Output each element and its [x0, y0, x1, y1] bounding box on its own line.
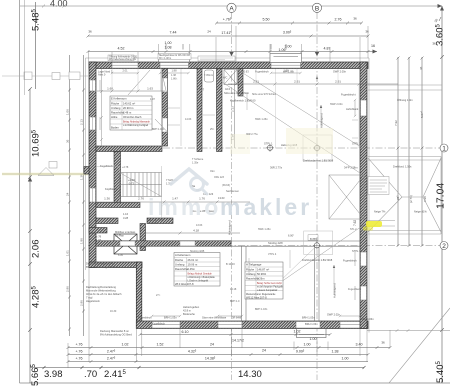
bottom big dimension row — [30, 366, 366, 369]
svg-text:Fläche: Fläche — [175, 258, 184, 262]
X-square top right — [329, 175, 364, 219]
bottom rooms divider wall B — [315, 246, 320, 321]
stair extension lines — [96, 166, 162, 218]
room info table 2 (bottom-left room) — [174, 253, 220, 287]
svg-text:Streling 42/8: Streling 42/8 — [268, 241, 283, 245]
svg-text:26.01 m²: 26.01 m² — [188, 258, 199, 262]
bath fixtures — [205, 70, 238, 85]
svg-text:Möbllee unterlass: Möbllee unterlass — [115, 230, 136, 234]
svg-text:25 t: 25 t — [210, 128, 214, 131]
long roof valley diagonal 1 — [238, 70, 364, 149]
svg-text:STPL 2: STPL 2 — [352, 142, 361, 146]
svg-text:1.16: 1.16 — [123, 212, 129, 216]
svg-text:3.28: 3.28 — [123, 216, 129, 220]
svg-text:WS Kellerbeleuchtung OG: WS Kellerbeleuchtung OG — [109, 58, 136, 61]
svg-text:36: 36 — [432, 42, 436, 46]
rotated chain mid x234 — [234, 70, 236, 148]
svg-text:10-Plan: 10-Plan — [115, 234, 124, 238]
svg-text:1.63: 1.63 — [147, 87, 153, 91]
svg-text:Hagelstreck: Hagelstreck — [86, 299, 100, 303]
svg-text:Umfang: Umfang — [246, 272, 256, 276]
svg-text:Fenstern: Fenstern — [147, 221, 158, 225]
svg-text:1.08: 1.08 — [165, 46, 172, 50]
svg-text:makler: makler — [220, 194, 312, 220]
svg-text:36: 36 — [353, 17, 357, 21]
svg-text:34°P 2.58m: 34°P 2.58m — [344, 166, 358, 170]
svg-text:Fugenblech t: Fugenblech t — [341, 93, 356, 97]
svg-text:1.01: 1.01 — [66, 250, 70, 256]
svg-text:+2.29: +2.29 — [128, 178, 135, 182]
svg-text:24: 24 — [262, 349, 266, 353]
svg-text:Umfang: Umfang — [175, 263, 185, 267]
svg-text:Aufsteigend: Aufsteigend — [320, 113, 324, 128]
grid line 1 horizontal — [88, 147, 440, 149]
svg-text:2.48 m: 2.48 m — [123, 111, 132, 115]
wall under stair landing — [96, 203, 140, 208]
svg-text:A Kellerraum: A Kellerraum — [175, 253, 191, 257]
faint verticals top-right room — [256, 69, 359, 148]
svg-text:Okn: Okn — [210, 170, 215, 173]
rotated label Aufsteigend B top — [320, 105, 324, 128]
svg-text:Drehfund. 1.50s: Drehfund. 1.50s — [393, 165, 412, 169]
svg-text:OFH-Flur-Dach: OFH-Flur-Dach — [123, 115, 142, 119]
svg-text:7 mgl: 7 mgl — [86, 296, 93, 300]
svg-text:8% Aufstandelung OG Berd: 8% Aufstandelung OG Berd — [86, 265, 118, 269]
door swing room1 — [128, 70, 150, 95]
stair — [120, 173, 162, 197]
svg-text:2.01: 2.01 — [122, 69, 128, 73]
svg-text:3.98: 3.98 — [44, 369, 63, 380]
svg-text:6.95: 6.95 — [118, 254, 123, 257]
section arrow A — [229, 52, 233, 56]
svg-text:Sitze eine 970 Schien: Sitze eine 970 Schien — [224, 91, 250, 95]
svg-text:2.96: 2.96 — [66, 286, 70, 292]
svg-text:28.0 Abw.207-8: 28.0 Abw.207-8 — [175, 282, 194, 286]
svg-text:BRH 1.0: BRH 1.0 — [230, 300, 240, 303]
svg-text:Neige d1%: Neige d1% — [414, 210, 427, 214]
top dimension row3/4 — [87, 44, 378, 54]
grid bubble A — [227, 3, 236, 12]
column B2 with foundation square — [304, 231, 333, 254]
svg-text:42.6: 42.6 — [225, 87, 231, 91]
interior wall duct/bath left — [217, 69, 223, 152]
right wall annotation box — [368, 177, 389, 195]
svg-text:STL 2: STL 2 — [350, 228, 357, 231]
dimension chain right — [440, 6, 444, 383]
svg-text:WS12 Abw.207-8: WS12 Abw.207-8 — [246, 295, 267, 299]
svg-text:Belag: Sohle Gem.Aufpl.: Belag: Sohle Gem.Aufpl. — [257, 282, 283, 285]
svg-text:-0.73: -0.73 — [128, 182, 134, 186]
svg-text:+.78: +.78 — [96, 235, 102, 239]
svg-text:Umfang: Umfang — [111, 106, 121, 110]
svg-text:4.00: 4.00 — [50, 0, 68, 9]
svg-text:13.63: 13.63 — [196, 224, 203, 227]
watermark logo — [171, 169, 207, 194]
section marker line mid left (pale yellow) — [2, 162, 88, 176]
svg-text:36R 2.77a: 36R 2.77a — [246, 133, 258, 136]
svg-text:24: 24 — [210, 343, 214, 347]
column STPL1 — [266, 144, 274, 152]
diagonal bottom right corner — [389, 308, 450, 383]
svg-text:STPL 1: STPL 1 — [264, 142, 273, 146]
svg-text:Höhe: Höhe — [111, 115, 118, 119]
long roof valley diagonal 2 — [222, 82, 360, 173]
dormer 1 top — [159, 55, 190, 63]
svg-text:3.00: 3.00 — [285, 45, 292, 49]
svg-text:SWP 2.00n: SWP 2.00n — [333, 70, 347, 74]
svg-text:14.63: 14.63 — [185, 118, 192, 121]
svg-text:u.nd Dämmung Fertigteil: u.nd Dämmung Fertigteil — [123, 124, 149, 127]
svg-text:24: 24 — [207, 30, 211, 34]
roof valley diagonal bottom middle — [262, 222, 368, 295]
svg-text:146.87 m²: 146.87 m² — [257, 268, 269, 272]
svg-text:Streling 42/B: Streling 42/B — [190, 250, 205, 253]
room info table 3 (bottom-middle room) — [245, 262, 284, 299]
svg-text:5.50: 5.50 — [263, 18, 270, 22]
svg-text:Fugenblech: Fugenblech — [255, 70, 269, 74]
grid line B vertical — [316, 12, 318, 380]
dimension chain left — [28, 2, 36, 383]
wall bottom — [136, 321, 368, 329]
svg-text:Deckung Mansardet 8 on: Deckung Mansardet 8 on — [100, 329, 130, 333]
window mini-dims bottom wall — [151, 315, 361, 317]
svg-text:WC: WC — [223, 76, 227, 80]
dormer 2 top — [270, 54, 302, 63]
svg-text:2.26m: 2.26m — [257, 277, 265, 281]
svg-text:2.96: 2.96 — [80, 300, 84, 306]
section marker line upper left — [2, 72, 88, 80]
stair left wall — [114, 152, 121, 203]
svg-text:Kugelblech: Kugelblech — [100, 164, 113, 168]
svg-text:1.06: 1.06 — [66, 109, 70, 115]
tiny labels top rooms — [98, 70, 359, 112]
svg-text:1.36: 1.36 — [104, 197, 110, 201]
svg-text:Drehfundament 1.80/.90/8: Drehfundament 1.80/.90/8 — [303, 159, 334, 163]
entrance porch below bottom wall — [297, 329, 327, 338]
svg-text:BRH 1.03n: BRH 1.03n — [302, 316, 315, 320]
wall top — [89, 62, 368, 69]
svg-text:B: B — [315, 5, 319, 12]
svg-text:1.86 t: 1.86 t — [171, 78, 178, 81]
svg-text:1.00: 1.00 — [165, 41, 172, 45]
top dimension row2 — [87, 35, 370, 38]
top dimension row1 — [215, 17, 441, 25]
svg-text:Abst 0: Abst 0 — [98, 73, 106, 77]
svg-text:42.8 m: 42.8 m — [183, 309, 191, 313]
svg-text:immo: immo — [148, 194, 221, 220]
interior wall room1 bottom — [96, 146, 162, 152]
svg-text:Deckung Steinpich 11 on: Deckung Steinpich 11 on — [86, 262, 115, 266]
grid bubble 2 — [440, 242, 448, 250]
svg-text:10.695: 10.695 — [31, 129, 42, 157]
svg-text:▭ 10.63: ▭ 10.63 — [239, 70, 249, 74]
right chain labels — [435, 24, 447, 384]
note below bottom wall left — [100, 329, 132, 337]
svg-text:SWP 2.00n: SWP 2.00n — [330, 103, 343, 106]
svg-text:Dachlattung/Konterlattung: Dachlattung/Konterlattung — [86, 285, 117, 289]
svg-text:4.52: 4.52 — [118, 47, 125, 51]
svg-text:27 t: 27 t — [156, 294, 160, 297]
svg-text:1.47: 1.47 — [199, 88, 205, 92]
svg-text:4.87: 4.87 — [324, 47, 331, 51]
svg-text:.70: .70 — [84, 369, 97, 380]
svg-text:+2.78: +2.78 — [122, 166, 129, 169]
yellow highlighter mark — [366, 221, 382, 227]
grid bubble B — [312, 3, 321, 12]
svg-text:Aufmblank: Aufmblank — [346, 107, 359, 111]
svg-text:19.06 m: 19.06 m — [188, 263, 198, 267]
svg-text:Fläche: Fläche — [246, 268, 255, 272]
svg-text:1.68: 1.68 — [107, 87, 113, 91]
interior wall corridor left — [162, 69, 168, 147]
svg-text:14.30: 14.30 — [238, 369, 262, 380]
svg-text:Sitze eine 970 Schien: Sitze eine 970 Schien — [252, 93, 277, 96]
svg-text:Drehfundament 1.80/.90/8: Drehfundament 1.80/.90/8 — [302, 258, 333, 262]
corridor glass partition — [180, 69, 182, 146]
svg-text:Kopfbereich 1.80/8.60: Kopfbereich 1.80/8.60 — [230, 99, 256, 103]
svg-text:H Tiefgarage: H Tiefgarage — [246, 263, 262, 267]
svg-text:m.def.Ausprüre Packgsfb: m.def.Ausprüre Packgsfb — [257, 286, 284, 289]
left wall exterior stub — [84, 167, 89, 175]
svg-text:ORL 123: ORL 123 — [214, 176, 225, 179]
grid bubble 1 — [440, 144, 448, 152]
svg-text:1.00: 1.00 — [342, 357, 349, 361]
svg-text:38 × 1.48 m: 38 × 1.48 m — [159, 57, 171, 60]
svg-text:2.13: 2.13 — [80, 119, 84, 125]
left inner dimension chains — [68, 55, 85, 336]
svg-text:2.06: 2.06 — [31, 240, 42, 259]
svg-text:1.97: 1.97 — [150, 98, 155, 101]
svg-text:14.18: 14.18 — [230, 288, 237, 291]
svg-text:36: 36 — [66, 139, 70, 143]
svg-text:1.35e: 1.35e — [192, 162, 199, 165]
svg-text:Neige 7%: Neige 7% — [374, 210, 386, 214]
bottom dimension rows — [67, 333, 392, 363]
svg-text:E Kellerraum: E Kellerraum — [111, 97, 127, 101]
note block outside bottom-left — [86, 285, 122, 303]
svg-text:2.13: 2.13 — [231, 106, 235, 112]
note block left of notch — [86, 262, 118, 270]
bottom wall line extension right — [367, 329, 450, 332]
tiny labels bottom rooms — [100, 164, 374, 326]
page border left — [19, 0, 21, 383]
svg-text:(36.63): (36.63) — [222, 184, 230, 187]
interior dimension line y202 — [96, 201, 250, 204]
svg-text:Fugenblech: Fugenblech — [348, 288, 362, 291]
building outer contour (eaves line) — [86, 58, 370, 333]
svg-text:2.76: 2.76 — [335, 18, 342, 22]
interior chain x=101.5 left room — [100, 69, 103, 146]
svg-text:1.00: 1.00 — [304, 343, 311, 347]
svg-text:140.62 m²: 140.62 m² — [123, 102, 135, 106]
svg-text:7.92: 7.92 — [394, 120, 398, 126]
gable triangle marker — [38, 168, 54, 176]
wall left — [89, 62, 96, 268]
svg-text:36R 2.77a: 36R 2.77a — [270, 166, 283, 170]
up arrow near gridline B top-right room — [316, 76, 318, 82]
rotated label slope arrow bottom — [333, 265, 337, 298]
svg-text:36: 36 — [419, 66, 423, 70]
svg-text:Belag: Abdeck Gemäde: Belag: Abdeck Gemäde — [188, 273, 213, 276]
svg-text:SWK 1.26n: SWK 1.26n — [255, 118, 268, 121]
svg-text:17.04: 17.04 — [435, 183, 447, 209]
pale yellow tint top-right room — [286, 128, 333, 154]
svg-text:BRH 1.03n: BRH 1.03n — [255, 308, 268, 311]
svg-text:6.10: 6.10 — [182, 330, 189, 334]
bottom rooms divider wall 1 — [242, 246, 247, 321]
svg-text:1.88: 1.88 — [283, 69, 289, 73]
svg-text:+.76: +.76 — [75, 357, 82, 361]
right annex hip roof plan — [368, 85, 442, 234]
svg-text:Mummole Wetterstreifung: Mummole Wetterstreifung — [86, 289, 116, 293]
interior wall bath right — [238, 69, 243, 97]
label boxes above top wall — [108, 54, 235, 62]
svg-text:1.07: 1.07 — [96, 238, 102, 242]
svg-text:3.40: 3.40 — [356, 343, 363, 347]
svg-text:8% Aufstandelung OG Berd: 8% Aufstandelung OG Berd — [100, 333, 132, 337]
window mini-dims right wall — [354, 99, 356, 300]
svg-text:7.62: 7.62 — [353, 220, 357, 226]
svg-text:Öffnung 1.0m: Öffnung 1.0m — [397, 98, 413, 102]
interior dimension line y84 — [97, 83, 398, 93]
svg-text:Aufsteigend: Aufsteigend — [333, 283, 337, 298]
window mini-dims left wall — [99, 80, 101, 130]
svg-text:36: 36 — [88, 30, 92, 34]
svg-text:Bodenehe: Bodenehe — [183, 312, 195, 316]
svg-text:1.52: 1.52 — [157, 343, 164, 347]
svg-text:BRH 1.03n: BRH 1.03n — [361, 317, 374, 321]
svg-text:2: 2 — [442, 243, 446, 250]
svg-text:SWK 1.26n: SWK 1.26n — [258, 228, 271, 231]
svg-text:7.05mm: 7.05mm — [204, 74, 213, 77]
top dimension line row0 — [20, 4, 442, 8]
chimney block with X — [114, 234, 137, 254]
extension lines below bottom wall — [68, 268, 390, 369]
svg-text:STPL 3: STPL 3 — [352, 249, 361, 253]
svg-text:Niedrigschloss für WS OR OR: Niedrigschloss für WS OR OR — [159, 54, 190, 57]
svg-text:BRH 1.03n: BRH 1.03n — [152, 128, 165, 131]
left chain labels — [30, 0, 68, 386]
svg-text:36: 36 — [365, 30, 369, 34]
svg-text:(2.76): (2.76) — [409, 195, 413, 203]
svg-text:50.96%: 50.96% — [257, 272, 267, 276]
svg-text:6.00°: 6.00° — [288, 234, 294, 238]
svg-text:1.86: 1.86 — [80, 238, 84, 244]
svg-text:1: 1 — [442, 145, 446, 152]
svg-text:40 lat.fix 4a +8 cm den Altbac: 40 lat.fix 4a +8 cm den Altbach — [86, 292, 122, 296]
svg-text:7.44: 7.44 — [170, 31, 177, 35]
svg-text:16.30: 16.30 — [110, 310, 117, 313]
grid line 2 horizontal — [88, 245, 440, 247]
interior dimension line y233 — [145, 232, 240, 235]
extra interior clutter labels — [110, 74, 362, 313]
svg-text:B 10.03: B 10.03 — [226, 263, 235, 266]
gridline2 wall long — [96, 241, 360, 246]
svg-text:1.88: 1.88 — [171, 69, 177, 73]
svg-text:1.02: 1.02 — [294, 330, 301, 334]
svg-text:2.45m: 2.45m — [188, 267, 196, 271]
svg-text:+.76: +.76 — [75, 350, 82, 354]
right inner dimension chains — [397, 57, 424, 248]
svg-text:Hebezugeben: Hebezugeben — [183, 305, 200, 309]
svg-text:BRH 1.03n: BRH 1.03n — [305, 322, 318, 326]
room info table 1 (top-left room) — [110, 96, 152, 130]
svg-text:VTPL 4: VTPL 4 — [268, 253, 277, 256]
svg-text:1.02: 1.02 — [122, 343, 129, 347]
svg-text:1.38: 1.38 — [332, 350, 339, 354]
interior mid wall segments (stair area) — [96, 218, 118, 224]
wall bottom-left notch vertical — [136, 262, 142, 328]
svg-text:SWP 2.02n: SWP 2.02n — [327, 313, 341, 317]
note block at notch bottom — [115, 230, 136, 237]
interior wall corridor right — [197, 69, 202, 152]
wall right — [360, 62, 367, 329]
page border bottom — [20, 382, 450, 384]
svg-text:36: 36 — [381, 341, 385, 345]
small interior dim marks — [168, 92, 358, 275]
svg-text:20.90 lm: 20.90 lm — [123, 106, 134, 110]
svg-text:Belag: Abdeckg Mansarde: Belag: Abdeckg Mansarde — [123, 121, 151, 124]
svg-text:4.18: 4.18 — [193, 229, 199, 233]
svg-text:Boden: Boden — [111, 126, 119, 130]
svg-text:16: 16 — [371, 44, 375, 48]
column B1 with foundation square — [303, 135, 332, 161]
svg-text:Fugenblech: Fugenblech — [138, 316, 152, 320]
svg-text:24: 24 — [66, 192, 70, 196]
svg-text:+.76: +.76 — [75, 343, 82, 347]
svg-text:2.76: 2.76 — [138, 197, 144, 201]
left second border line top — [24, 0, 26, 95]
wall bottom-left notch horizontal — [89, 262, 142, 268]
svg-text:1.06: 1.06 — [279, 48, 286, 52]
extension risers above top wall — [89, 26, 369, 62]
grid line A vertical — [231, 12, 233, 380]
svg-text:Kopfblech: Kopfblech — [105, 187, 117, 191]
svg-text:A: A — [229, 5, 234, 12]
svg-text:Fläche: Fläche — [111, 102, 120, 106]
extra bottom row numbers — [157, 343, 349, 361]
svg-text:Aufsteigend: Aufsteigend — [227, 220, 231, 235]
svg-text:Sachlensen: Sachlensen — [226, 190, 240, 193]
svg-text:u.Dämmung n.Bodenplatte: u.Dämmung n.Bodenplatte — [188, 276, 216, 279]
small rect near B865 — [308, 235, 318, 241]
extension verticals window edges left room — [112, 69, 161, 92]
window mini-dims top wall — [111, 72, 302, 74]
svg-text:Kugelblech: Kugelblech — [152, 322, 165, 326]
tiny labels mid — [96, 98, 427, 242]
svg-text:u.davon Kompaktstr: u.davon Kompaktstr — [257, 289, 278, 292]
section arrow B — [315, 52, 319, 56]
